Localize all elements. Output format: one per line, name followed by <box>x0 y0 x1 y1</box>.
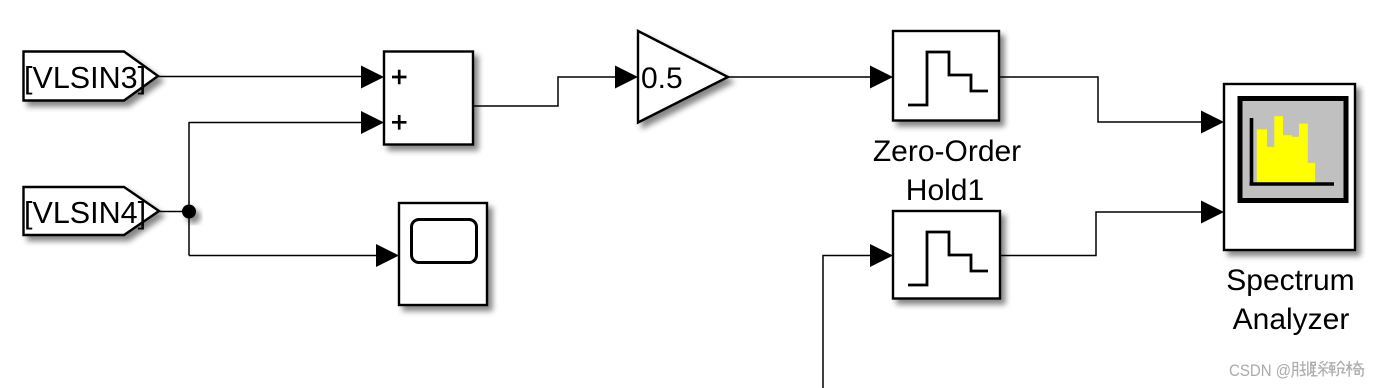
ZOH2 staircase icon <box>908 232 988 285</box>
spectrum analyzer yellow bars <box>1257 116 1315 182</box>
svg-text:Hold1: Hold1 <box>906 174 984 207</box>
scope screen <box>412 220 477 263</box>
svg-text:[VLSIN4]: [VLSIN4] <box>24 196 146 230</box>
zero-order hold block ZOH2 <box>893 211 1000 299</box>
spectrum analyzer axes <box>1250 118 1335 184</box>
svg-text:Spectrum: Spectrum <box>1226 264 1354 297</box>
arrowhead into Gain <box>615 66 638 89</box>
wire ZOH1 to Spectrum Analyzer input 1 <box>999 77 1201 122</box>
arrowhead into ZOH1 <box>870 66 893 89</box>
from block From1 [VLSIN3] <box>24 52 159 101</box>
svg-text:0.5: 0.5 <box>641 62 683 95</box>
zero-order hold block ZOH1 <box>893 31 999 121</box>
plus sign input 1 <box>392 70 407 85</box>
wire junction to Scope <box>189 255 376 257</box>
ZOH1 staircase icon <box>908 52 988 105</box>
wire junction vertical <box>188 122 190 256</box>
arrowhead into ZOH2 <box>870 244 893 267</box>
from block From2 [VLSIN4] <box>24 187 160 235</box>
svg-text:[VLSIN3]: [VLSIN3] <box>24 61 146 95</box>
gain block 0.5 <box>638 31 728 123</box>
junction dot <box>182 205 196 219</box>
wire From2 to junction <box>159 211 189 213</box>
svg-text:CSDN @: CSDN @ <box>1229 362 1291 380</box>
wire Sum to Gain <box>473 77 615 106</box>
wire junction to Sum input 2 <box>189 122 361 124</box>
char jiao <box>1292 362 1311 378</box>
char lun <box>1329 361 1346 376</box>
wire Gain to ZOH1 <box>728 76 870 78</box>
wire From1 to Sum input 1 <box>158 76 361 78</box>
arrowhead into Spectrum Analyzer input 1 <box>1201 111 1224 134</box>
arrowhead into Spectrum Analyzer input 2 <box>1201 201 1224 224</box>
svg-text:Analyzer: Analyzer <box>1233 303 1350 336</box>
svg-text:Zero-Order: Zero-Order <box>873 135 1021 168</box>
wire from below into ZOH2 <box>823 256 870 388</box>
scope block <box>399 203 487 305</box>
wire ZOH2 to Spectrum Analyzer input 2 <box>1000 212 1201 256</box>
arrowhead into Sum input 2 <box>361 111 384 134</box>
spectrum analyzer block <box>1224 84 1355 250</box>
plus sign input 2 <box>392 115 407 130</box>
sum block Add <box>384 52 473 145</box>
spectrum analyzer icon background <box>1240 99 1346 201</box>
char yi <box>1347 361 1364 376</box>
char cai <box>1311 362 1328 377</box>
arrowhead into Scope <box>376 244 399 267</box>
arrowhead into Sum input 1 <box>361 66 384 89</box>
watermark chinese characters <box>1292 361 1364 377</box>
